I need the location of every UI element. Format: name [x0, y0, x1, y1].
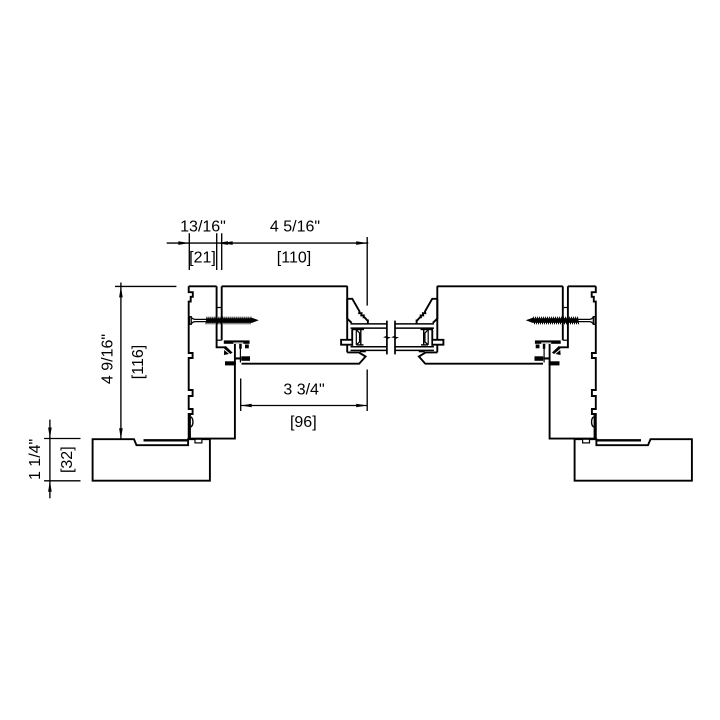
svg-text:[21]: [21] [189, 249, 216, 266]
svg-text:[110]: [110] [277, 249, 311, 266]
svg-text:4 5/16": 4 5/16" [270, 219, 320, 236]
svg-text:[116]: [116] [130, 345, 147, 379]
svg-text:[96]: [96] [290, 414, 317, 431]
svg-text:4 9/16": 4 9/16" [99, 334, 116, 384]
svg-text:3 3/4": 3 3/4" [283, 381, 324, 398]
svg-text:13/16": 13/16" [180, 219, 226, 236]
svg-text:[32]: [32] [59, 446, 76, 473]
svg-text:1 1/4": 1 1/4" [27, 439, 44, 480]
